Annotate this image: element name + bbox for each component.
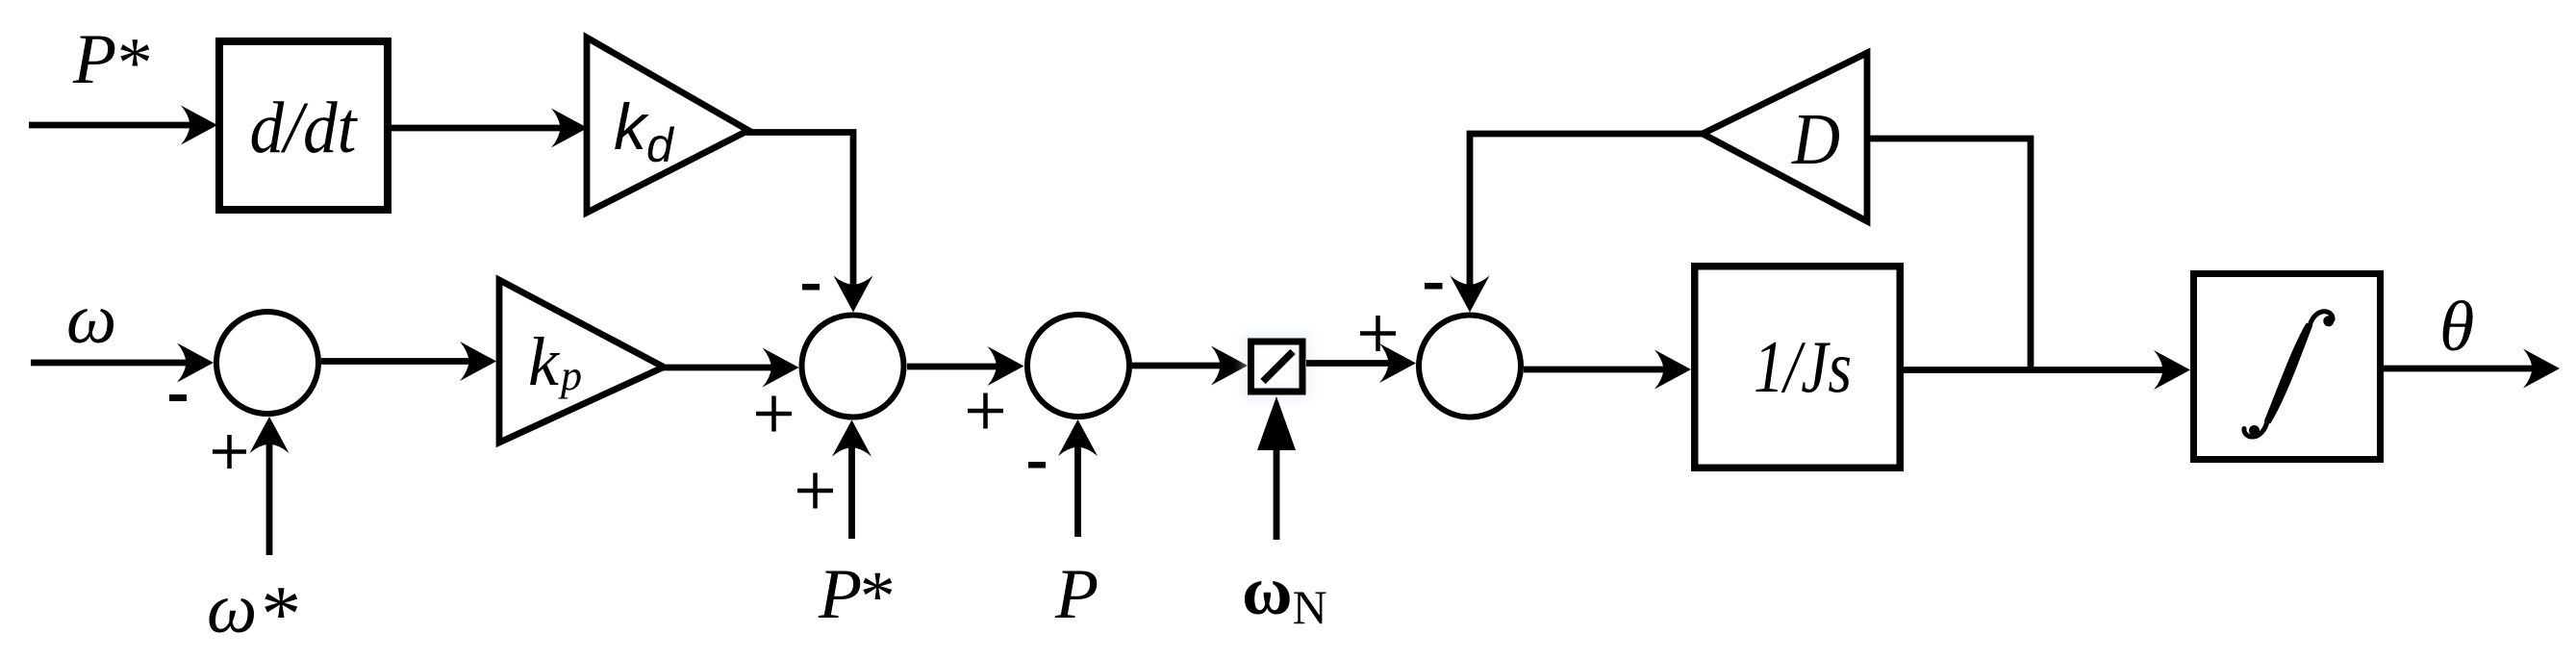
- summing junction S4: [1419, 316, 1521, 418]
- wire omega* input up into S1: [266, 430, 273, 555]
- svg-text:θ: θ: [2439, 288, 2474, 367]
- gain triangle kp: [499, 280, 664, 443]
- sign plus at S4 left: [1360, 316, 1396, 351]
- integrator block: [2194, 274, 2381, 460]
- wire d/dt to kd: [389, 125, 573, 132]
- wire S4 to 1/Js: [1524, 367, 1678, 373]
- sign plus at S2 left: [756, 396, 792, 432]
- arrowhead into kd: [551, 109, 588, 148]
- arrowhead into S2: [763, 348, 799, 388]
- wire limiter to S4: [1306, 360, 1402, 367]
- arrowhead into 1/Js: [1654, 350, 1691, 390]
- svg-text:1/Js: 1/Js: [1754, 325, 1852, 408]
- wire integrator output: [2384, 366, 2546, 372]
- svg-text:kp: kp: [528, 323, 582, 400]
- summing junction S1: [216, 312, 318, 414]
- slash inside limiter: [1263, 352, 1293, 382]
- wire omegaN input up into limiter: [1274, 446, 1280, 540]
- svg-text:D: D: [1791, 99, 1840, 180]
- wire omega input to S1: [31, 360, 200, 367]
- svg-text:ω: ω: [66, 280, 116, 359]
- svg-text:P*: P*: [818, 555, 892, 637]
- blue halo of limiter block: [1249, 339, 1304, 393]
- wire S3 to limiter: [1132, 363, 1234, 369]
- arrowhead into S1: [177, 343, 214, 383]
- limiter block (divide-by box): [1251, 342, 1303, 392]
- arrowhead up into S1: [250, 417, 290, 453]
- gain triangle D (pointing left): [1703, 53, 1867, 221]
- arrowhead into limiter: [1211, 346, 1248, 386]
- arrowhead into S4: [1379, 343, 1416, 383]
- wire kp to S2: [661, 365, 783, 371]
- block 1/Js: [1695, 266, 1901, 469]
- arrowhead up into S3: [1058, 419, 1098, 456]
- wire P input up into S3: [1074, 433, 1081, 537]
- arrowhead into d/dt: [181, 106, 217, 145]
- wire S2 to S3: [907, 364, 1010, 370]
- gain triangle kd: [587, 38, 748, 213]
- arrowhead up into S2: [832, 420, 871, 457]
- sign minus at S3 bottom: [1028, 462, 1046, 469]
- summing junction S3: [1027, 315, 1129, 417]
- block d/dt: [219, 41, 388, 210]
- arrowhead into integrator: [2154, 350, 2190, 390]
- arrowhead into S3: [988, 346, 1024, 386]
- svg-text:d/dt: d/dt: [250, 88, 359, 168]
- svg-text:P: P: [1054, 555, 1099, 634]
- arrowhead down into S2: [834, 276, 873, 313]
- svg-text:P*: P*: [72, 20, 149, 103]
- arrowhead down into S4: [1451, 276, 1490, 313]
- arrowhead output: [2523, 349, 2560, 389]
- summing junction S2: [802, 316, 904, 418]
- sign plus at S1 bottom: [213, 435, 246, 469]
- sign plus at S3 left: [968, 393, 1003, 429]
- sign minus at S4 top: [1425, 283, 1443, 290]
- wire P* input to d/dt: [29, 122, 204, 129]
- sign plus at S2 bottom: [797, 473, 833, 509]
- svg-text:ωN: ωN: [1242, 552, 1327, 634]
- sign minus at S1 left: [169, 394, 187, 401]
- wire kd output, right then down into summing junction S2: [745, 133, 853, 300]
- wire feedback from node to D input: [1867, 139, 2031, 370]
- wire 1/Js to integrator (with feedback tap node): [1904, 367, 2177, 373]
- sign minus at S2 top: [802, 284, 820, 291]
- wire P* input up into S2: [848, 433, 855, 539]
- wire S1 to kp: [321, 358, 483, 365]
- svg-text:ω*: ω*: [207, 570, 297, 659]
- svg-text:kd: kd: [614, 90, 675, 172]
- arrowhead into kp: [460, 342, 496, 381]
- arrowhead up into limiter: [1257, 396, 1296, 450]
- wire from D output down into S4: [1470, 134, 1705, 296]
- label integral: [2244, 312, 2334, 437]
